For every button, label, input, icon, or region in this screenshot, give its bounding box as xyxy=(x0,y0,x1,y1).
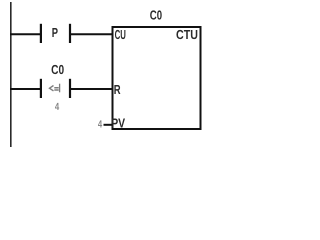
svg-text:4: 4 xyxy=(98,120,103,131)
wire rung1 rail to contact xyxy=(10,33,41,35)
wire PV stub xyxy=(104,124,113,126)
comparison contact left bar xyxy=(40,79,42,98)
left power rail xyxy=(10,2,12,147)
svg-text:P: P xyxy=(52,25,58,40)
svg-text:PV: PV xyxy=(111,116,125,131)
comparison contact symbol <= xyxy=(50,84,60,93)
svg-text:CU: CU xyxy=(115,27,126,42)
comparison contact right bar xyxy=(69,79,71,98)
contact P left bar xyxy=(40,24,42,43)
svg-text:R: R xyxy=(114,82,121,97)
counter box CTU U1 xyxy=(113,27,201,129)
svg-text:CTU: CTU xyxy=(176,27,198,42)
wire rung2 rail to comparison contact xyxy=(10,88,41,90)
wire rung2 contact to R input xyxy=(70,88,113,90)
svg-text:4: 4 xyxy=(55,102,60,113)
svg-text:C0: C0 xyxy=(150,7,162,22)
contact P right bar xyxy=(69,24,71,43)
wire rung1 contact to counter box xyxy=(70,33,113,35)
svg-text:C0: C0 xyxy=(51,62,64,77)
